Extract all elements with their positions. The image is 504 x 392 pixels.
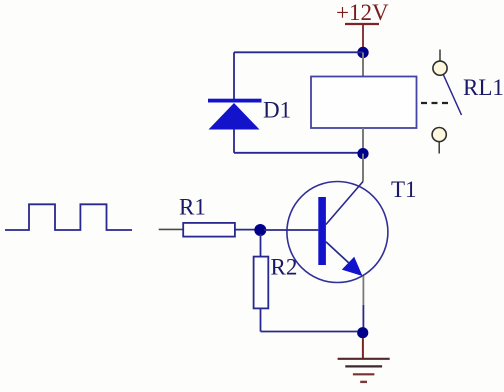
wire base node to transistor base (264, 229, 318, 231)
transistor emitter arrow (342, 257, 363, 276)
ground stem (362, 338, 364, 359)
relay linkage dashed line (421, 102, 449, 104)
svg-text:R1: R1 (179, 195, 206, 220)
junction node J2 (357, 148, 368, 159)
ground bar 3 (353, 373, 375, 375)
svg-text:RL1: RL1 (463, 75, 504, 100)
junction node J1 (357, 47, 368, 58)
wire J1 to diode top (234, 51, 363, 53)
ground bar 4 (360, 381, 367, 383)
transistor T1 base bar (318, 197, 326, 265)
relay contact bottom terminal (438, 142, 440, 154)
transistor emitter line (326, 242, 350, 264)
wire R1 to base node (235, 229, 256, 231)
wire J1 to relay coil (gray) (362, 53, 364, 78)
wire input to R1 (159, 228, 184, 230)
ground bar 2 (345, 365, 382, 367)
wire J2 to collector (gray) (362, 154, 364, 182)
junction node J3 (357, 327, 368, 338)
wire relay coil to J2 (gray) (362, 128, 364, 154)
svg-text:T1: T1 (391, 177, 417, 202)
+12V supply bar (345, 23, 379, 25)
transistor collector line (326, 182, 363, 225)
wire R2 to bottom rail (260, 308, 262, 331)
ground bar 1 (338, 358, 390, 360)
wire base node to R2 (260, 234, 262, 257)
wire +12V bar to junction (362, 24, 364, 48)
wire emitter down (gray upper) (362, 276, 364, 305)
input square wave (5, 204, 132, 230)
wire emitter down (navy lower) (362, 305, 364, 328)
relay contact top terminal (439, 50, 441, 62)
transistor T1 body circle (287, 182, 388, 283)
relay contact top circle (433, 61, 447, 75)
wire diode cathode vertical (233, 52, 235, 100)
junction node base (254, 224, 266, 236)
relay contact bottom circle (432, 128, 446, 142)
svg-text:+12V: +12V (336, 0, 389, 25)
wire bottom rail to J3 (261, 331, 359, 333)
svg-text:R2: R2 (271, 255, 298, 280)
svg-text:D1: D1 (263, 98, 291, 123)
resistor R1 (183, 223, 235, 237)
resistor R2 (254, 257, 269, 309)
wire diode anode to J2 (234, 152, 363, 154)
diode D1 (208, 99, 262, 153)
relay switch arm (444, 75, 462, 115)
relay coil RL1 box (311, 77, 417, 129)
